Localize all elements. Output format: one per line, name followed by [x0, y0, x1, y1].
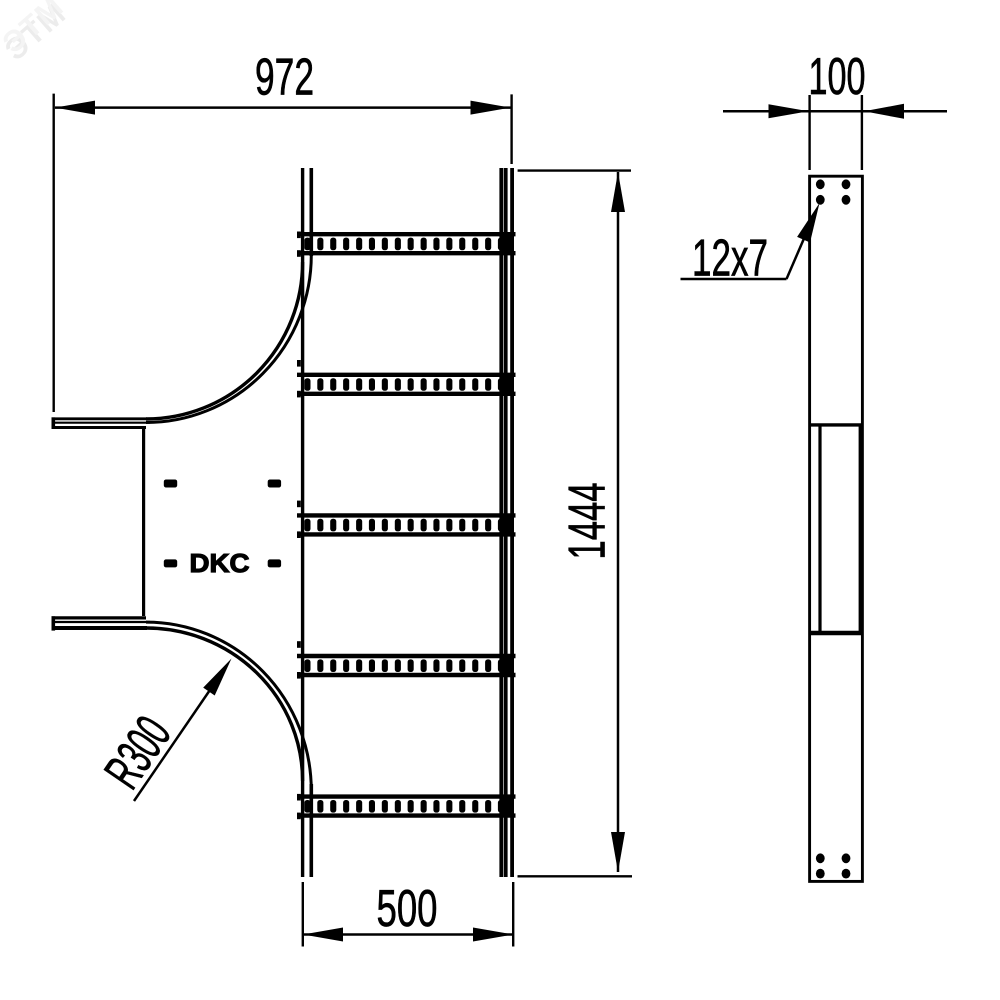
dimension 1444 extension line top [518, 169, 631, 171]
callout R300 text [94, 707, 182, 799]
dimension 1444 extension line bottom [518, 875, 633, 877]
right rail line 1 (rung end line) [499, 168, 503, 877]
side view connector bottom edge [810, 631, 861, 635]
bottom branch arm flange outer line [52, 626, 148, 630]
dimension 1444 arrow bottom [611, 832, 625, 872]
junction slot dash [164, 480, 177, 488]
bottom branch arm web line [52, 616, 147, 619]
dimension 500 extension line right [512, 882, 514, 947]
svg-text:12x7: 12x7 [692, 230, 768, 288]
callout 12x7 leader diagonal [787, 213, 816, 279]
svg-text:100: 100 [809, 48, 866, 106]
dimension 100 extension line right [861, 95, 863, 170]
mounting hole 12x7 [842, 195, 851, 205]
upper R300 curve outer line [146, 262, 303, 419]
right rail line 2 (rail inner edge) [504, 168, 508, 877]
side view connector top edge [810, 423, 861, 426]
mounting hole 12x7 [842, 853, 851, 863]
lower R300 curve inner line [146, 622, 311, 791]
upper R300 curve inner line [146, 255, 311, 423]
dimension 1444 line [617, 172, 620, 872]
watermark ETM logo [0, 0, 75, 67]
dimension 972 extension line left [53, 94, 55, 412]
rung 5 [297, 794, 516, 819]
bottom branch arm flange inner line [52, 621, 151, 623]
callout R300 leader line [134, 668, 225, 801]
svg-text:1444: 1444 [559, 483, 617, 560]
side view connector inner right line [859, 425, 861, 633]
rung 4 [297, 641, 516, 678]
left rail inner line upper segment [309, 168, 313, 256]
mounting hole 12x7 [842, 869, 851, 879]
dimension 972 arrow right [471, 101, 511, 115]
dimension 100 line [723, 110, 947, 113]
dimension 972 extension line right [510, 94, 512, 164]
side view connector inner left line [818, 425, 821, 633]
dimension 972 line [55, 106, 511, 109]
top branch arm flange inner line [52, 422, 151, 424]
lower R300 curve outer line [146, 628, 303, 781]
dimension 100 arrow left (points right) [769, 104, 809, 118]
dimension 500 extension line left [302, 882, 304, 947]
mounting hole 12x7 [816, 853, 825, 863]
dimension 1444 arrow top [611, 172, 625, 212]
bottom branch arm end cap [51, 616, 55, 630]
rung 2 [297, 360, 516, 397]
mounting hole 12x7 [816, 195, 825, 205]
mounting hole 12x7 [842, 179, 851, 189]
svg-text:500: 500 [377, 880, 438, 938]
dimension 1444 text [559, 483, 617, 560]
mounting hole 12x7 [816, 179, 825, 189]
dimension 500 arrow left [303, 928, 343, 942]
top branch arm end cap [51, 417, 55, 429]
dimension 500 line [303, 933, 513, 936]
rung 1 [297, 232, 516, 257]
top branch arm flange outer line [52, 417, 148, 420]
junction slot dash [164, 559, 177, 567]
dimension 100 extension line left [808, 95, 810, 170]
svg-text:DKC: DKC [190, 548, 250, 578]
left rail inner line lower segment [309, 784, 313, 877]
branch mouth edge line [142, 429, 145, 616]
junction slot dash [268, 559, 281, 567]
left rail outer line (main run web edge) [301, 168, 304, 877]
mounting hole 12x7 [816, 869, 825, 879]
dimension 972 arrow left [55, 101, 95, 115]
side view outer body [810, 176, 863, 881]
dimension 100 arrow right (points left) [864, 104, 904, 119]
svg-text:972: 972 [255, 49, 314, 107]
junction slot dash [268, 480, 281, 488]
callout 12x7 arrow [797, 203, 819, 243]
callout 12x7 leader underline [681, 278, 787, 281]
rung 3 [297, 501, 516, 538]
callout R300 arrow [203, 659, 231, 696]
right rail line 3 (rail outer edge) [510, 168, 514, 877]
top branch arm web line [52, 426, 147, 429]
dimension 500 arrow right [473, 928, 513, 942]
